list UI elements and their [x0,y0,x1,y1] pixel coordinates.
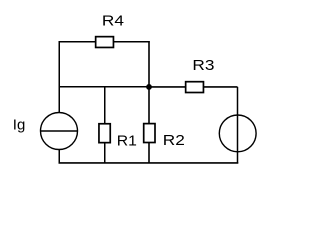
svg-text:R2: R2 [163,132,185,149]
label R2 [163,132,185,149]
wire: right vertical of top branch (down to node A) [148,41,150,87]
resistor R3 [186,82,204,93]
resistor R4 [96,37,114,48]
wire: bottom horizontal [59,162,239,164]
wire: Ig bottom lead [58,149,60,163]
wire: R2 vertical branch [148,87,150,164]
label R1 [117,133,137,150]
wire: top horizontal (R4 branch) [59,41,150,43]
wire: right vertical (through right source) [237,87,239,164]
resistor R2 [144,124,155,143]
current source (right, circle with vertical line through) [219,115,256,152]
current source Ig (left, circle with horizontal bar) [41,113,78,150]
label R3 [192,57,214,74]
resistor R1 [99,124,110,143]
wire: R1 vertical branch [104,87,106,164]
svg-text:R4: R4 [102,12,124,29]
label R4 [102,12,124,29]
wire: middle bus [59,86,150,88]
svg-text:Ig: Ig [13,117,26,134]
node A: junction dot [146,84,152,90]
svg-text:R1: R1 [117,133,137,150]
wire: R3 branch horizontal [149,86,238,88]
svg-text:R3: R3 [192,57,214,74]
wire: left vertical (top wire down to Ig source) [58,41,60,113]
